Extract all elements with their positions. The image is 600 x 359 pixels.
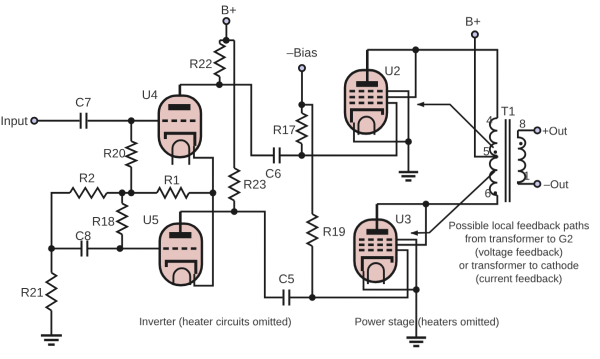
node R19 bottom junction xyxy=(309,294,316,301)
wire U2 grid line xyxy=(302,103,397,156)
node C8 right junction xyxy=(117,245,124,252)
tube U2 heater xyxy=(358,117,374,135)
wire U4 cathode bus xyxy=(194,146,213,286)
svg-text:C5: C5 xyxy=(279,272,295,286)
node R22 bottom junction xyxy=(216,81,223,88)
tube U3 cathode xyxy=(362,258,392,272)
label R2 xyxy=(79,171,95,185)
wire R1 to cathode bus xyxy=(189,192,213,194)
arrow feedback to U3 xyxy=(410,171,495,236)
svg-text:B+: B+ xyxy=(465,15,481,29)
wire R2 left to C8 node xyxy=(52,193,70,249)
svg-text:R18: R18 xyxy=(92,215,115,229)
svg-text:5: 5 xyxy=(483,144,490,158)
label R22 xyxy=(189,57,212,71)
wire C7 to U4 grid xyxy=(88,120,160,122)
tube U4 cathode xyxy=(165,133,195,146)
wire U3 plate line xyxy=(377,195,497,230)
node R17 bottom junction xyxy=(298,152,305,159)
ground below U3 xyxy=(406,338,426,346)
svg-text:C7: C7 xyxy=(75,96,91,110)
caption inverter xyxy=(139,316,291,328)
annotation feedback paths xyxy=(448,220,589,285)
svg-text:R21: R21 xyxy=(21,286,44,300)
node cathode bus junction xyxy=(210,189,217,196)
label R20 xyxy=(103,146,126,160)
capacitor C5 xyxy=(283,289,289,305)
tube U4 plate xyxy=(168,104,190,110)
node R23 bottom junction xyxy=(231,208,238,215)
label C5 xyxy=(279,272,295,286)
svg-text:U2: U2 xyxy=(384,64,400,78)
resistor R22 xyxy=(215,40,225,84)
label U3 xyxy=(395,212,411,226)
tube U3 plate xyxy=(366,229,388,235)
label R19 xyxy=(323,225,346,239)
svg-text:C6: C6 xyxy=(265,167,281,181)
resistor R21 xyxy=(46,249,56,336)
label R21 xyxy=(21,286,44,300)
svg-text:4: 4 xyxy=(486,113,493,127)
tube U4 body xyxy=(159,96,201,158)
capacitor C6 xyxy=(274,147,280,163)
ground below R21 xyxy=(41,335,62,344)
label pin 1 xyxy=(523,169,530,183)
svg-text:C8: C8 xyxy=(75,229,91,243)
wire U5 plate line xyxy=(180,212,282,298)
node -Out terminal xyxy=(534,179,569,191)
transformer T1 secondary xyxy=(518,130,526,184)
svg-text:(voltage feedback): (voltage feedback) xyxy=(475,247,563,259)
node B+ junction xyxy=(223,37,230,44)
node U3 G2 junction xyxy=(423,201,430,208)
resistor R19 xyxy=(302,105,318,298)
svg-text:or transformer to cathode: or transformer to cathode xyxy=(459,260,579,272)
wire B+ to center tap xyxy=(475,38,498,157)
svg-text:U4: U4 xyxy=(142,88,158,102)
svg-text:Possible local feedback paths: Possible local feedback paths xyxy=(449,220,590,232)
svg-text:Input: Input xyxy=(0,114,28,128)
transformer T1 primary xyxy=(490,118,498,195)
label U2 xyxy=(384,64,400,78)
wire R22 node line xyxy=(220,39,235,41)
tube U5 heater xyxy=(173,268,190,285)
wire U2 G3 to cathode xyxy=(387,91,409,142)
svg-text:from transformer to G2: from transformer to G2 xyxy=(465,233,573,245)
svg-text:R23: R23 xyxy=(243,178,266,192)
wire C5 to U3 grid xyxy=(289,250,407,297)
label C8 xyxy=(75,229,91,243)
svg-text:Power stage (heaters omitted): Power stage (heaters omitted) xyxy=(355,316,500,328)
tube U2 cathode xyxy=(351,110,382,123)
tube U2 plate xyxy=(356,81,378,87)
wire U3 cathode to ground xyxy=(363,271,416,338)
label C7 xyxy=(75,96,91,110)
node pin5 phase dot xyxy=(494,150,497,153)
node -Bias junction xyxy=(298,101,305,108)
node Input terminal xyxy=(0,114,37,128)
resistor R1 xyxy=(157,188,189,198)
label R1 xyxy=(164,173,180,187)
tube U4 grid xyxy=(162,119,197,122)
svg-text:T1: T1 xyxy=(501,104,516,118)
label U4 xyxy=(142,88,158,102)
wire U2 G2 to plate xyxy=(387,50,416,97)
resistor R17 xyxy=(297,105,307,156)
caption power stage xyxy=(355,316,500,328)
arrow feedback to U2 G2 xyxy=(417,102,494,148)
wire R2 to R1 xyxy=(107,192,157,194)
svg-text:R19: R19 xyxy=(323,225,346,239)
svg-text:+Out: +Out xyxy=(542,126,568,138)
tube U5 grid xyxy=(163,247,198,250)
wire U3 G3 to cathode xyxy=(396,240,416,290)
wire U3 G2 to plate xyxy=(396,204,426,245)
node B+ terminal right xyxy=(465,15,481,38)
label R23 xyxy=(243,178,266,192)
wire U2 plate line xyxy=(367,50,497,118)
tube U3 body xyxy=(354,220,396,283)
wire C8 to U5 grid xyxy=(120,248,161,250)
transformer T1 core xyxy=(506,119,510,202)
wire B+ to R22 node xyxy=(225,24,227,40)
label pin 4 xyxy=(486,113,493,127)
wire -Bias down xyxy=(301,71,303,104)
label pin 8 xyxy=(519,117,526,131)
tube U5 body xyxy=(160,224,202,286)
svg-text:–Bias: –Bias xyxy=(287,46,318,60)
tube U5 cathode xyxy=(166,261,196,274)
label C6 xyxy=(265,167,281,181)
wire C6 to R17 node xyxy=(280,154,302,156)
label U5 xyxy=(143,213,159,227)
resistor R2 xyxy=(70,188,107,198)
wire U2 cathode to ground xyxy=(354,123,409,173)
wire input to C7 xyxy=(38,120,80,122)
label R18 xyxy=(92,215,115,229)
wire secondary to +Out xyxy=(518,129,534,131)
svg-text:R1: R1 xyxy=(164,173,180,187)
svg-text:U5: U5 xyxy=(143,213,159,227)
wire secondary to -Out xyxy=(518,183,534,185)
node C8 left junction xyxy=(48,245,55,252)
svg-text:R22: R22 xyxy=(189,57,212,71)
capacitor C8 xyxy=(52,241,120,257)
svg-text:R2: R2 xyxy=(79,171,95,185)
node pin6 phase dot xyxy=(494,191,497,194)
svg-text:6: 6 xyxy=(485,186,492,200)
tube U2 grid rows xyxy=(349,91,383,103)
node R20 bottom junction xyxy=(128,189,135,196)
tube U4 heater xyxy=(172,140,189,165)
tube U2 body xyxy=(345,70,387,134)
wire U4 plate line xyxy=(180,85,273,156)
node U2 G2 junction xyxy=(412,46,419,53)
label R17 xyxy=(273,123,296,137)
resistor R18 xyxy=(117,193,127,249)
svg-text:B+: B+ xyxy=(221,3,237,17)
label pin 6 xyxy=(485,186,492,200)
svg-text:–Out: –Out xyxy=(544,179,570,191)
node +Out terminal xyxy=(534,126,568,138)
capacitor C7 xyxy=(81,113,87,129)
node -Bias terminal xyxy=(287,46,318,72)
svg-text:Inverter (heater circuits omit: Inverter (heater circuits omitted) xyxy=(139,316,291,328)
node input junction xyxy=(128,117,135,124)
svg-text:(current feedback): (current feedback) xyxy=(476,273,563,285)
wire B+ bus to R23 xyxy=(233,40,235,168)
tube U3 heater xyxy=(368,263,384,284)
node secondary phase dot xyxy=(519,142,522,145)
label pin 5 xyxy=(483,144,490,158)
node R18 top junction xyxy=(119,189,126,196)
ground below U2 xyxy=(399,172,418,180)
svg-text:1: 1 xyxy=(523,169,530,183)
node U2 cathode junction xyxy=(405,138,412,145)
tube U5 plate xyxy=(169,232,191,238)
resistor R23 xyxy=(229,168,239,212)
svg-text:R17: R17 xyxy=(273,123,296,137)
svg-text:U3: U3 xyxy=(395,212,411,226)
resistor R20 xyxy=(126,121,136,193)
tube U3 grid rows xyxy=(359,240,393,251)
node U3 cathode junction xyxy=(413,286,420,293)
svg-text:8: 8 xyxy=(519,117,526,131)
svg-text:R20: R20 xyxy=(103,146,126,160)
label T1 xyxy=(501,104,516,118)
node B+ terminal left xyxy=(221,3,237,24)
